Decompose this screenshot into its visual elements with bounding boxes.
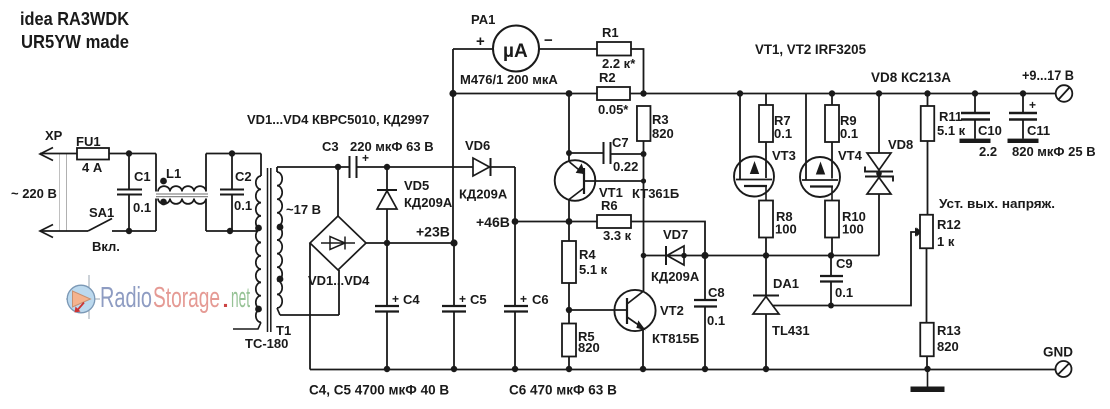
svg-text:R13: R13: [937, 323, 961, 338]
capacitor C11: [1009, 94, 1037, 139]
label SA1: [89, 205, 114, 220]
junction (C6 bottom): [512, 366, 518, 372]
svg-text:С9: С9: [836, 256, 853, 271]
svg-text:100: 100: [775, 222, 797, 237]
svg-text:0.1: 0.1: [774, 126, 792, 141]
label VD8: [888, 137, 913, 152]
label C7: [612, 135, 629, 150]
junction (+23V right end): [450, 239, 457, 246]
resistor R3: [637, 106, 651, 141]
svg-text:C1: C1: [134, 169, 151, 184]
svg-text:ХР: ХР: [45, 128, 63, 143]
wire (R4-R5): [568, 310, 570, 324]
ammeter PA1: [493, 26, 539, 72]
wire (VT2 emitter to ground): [642, 328, 644, 369]
ground symbol: [911, 369, 945, 392]
junction (meter tap on bus): [449, 90, 456, 97]
label VD8 KC213A: [871, 70, 951, 85]
caption C6 value: [509, 383, 617, 398]
wire (R3 to VD7 node vertical): [643, 141, 645, 292]
svg-text:ТС-180: ТС-180: [245, 336, 288, 351]
wire (DA1 cathode): [765, 256, 767, 296]
C11 polarity +: [1029, 98, 1036, 112]
label R13: [937, 323, 961, 338]
label VD5: [404, 178, 429, 193]
C6 polarity +: [520, 292, 527, 306]
svg-text:~17 В: ~17 В: [286, 202, 321, 217]
connector XP arrow (top wire): [40, 148, 53, 161]
capacitor C1: [117, 154, 142, 232]
svg-text:2.2: 2.2: [979, 144, 997, 159]
svg-text:net: net: [231, 282, 250, 314]
label output voltage: [1022, 68, 1074, 83]
svg-text:−: −: [544, 32, 553, 49]
junction (R8 / DA1): [763, 252, 769, 258]
label C1: [134, 169, 151, 184]
svg-text:Storage: Storage: [153, 282, 220, 314]
C5 polarity +: [459, 292, 466, 306]
svg-text:Вкл.: Вкл.: [92, 239, 120, 254]
label R5: [578, 329, 595, 344]
wire (secondary top to C3): [277, 166, 350, 168]
label VD7 type: [651, 269, 700, 284]
switch SA1 blade: [88, 219, 112, 232]
transistor VT1 (KT361B, PNP): [555, 160, 596, 221]
junction (R5 bottom): [566, 366, 572, 372]
svg-text:820: 820: [578, 340, 600, 355]
svg-text:~ 220 В: ~ 220 В: [11, 186, 57, 201]
label R3: [652, 112, 669, 127]
wire (collector to R4): [568, 222, 570, 242]
svg-text:4 А: 4 А: [82, 160, 103, 175]
junction (VD7 anode): [681, 253, 687, 259]
meter polarity +: [476, 33, 485, 50]
svg-text:С10: С10: [978, 123, 1002, 138]
svg-text:0.1: 0.1: [133, 200, 151, 215]
svg-text:0.1: 0.1: [234, 198, 252, 213]
wire (+46V vertical): [514, 167, 516, 306]
wire (VT2 base): [569, 309, 627, 311]
svg-text:TL431: TL431: [772, 323, 810, 338]
svg-text:VT1, VT2 IRF3205: VT1, VT2 IRF3205: [755, 42, 866, 57]
label C6: [532, 292, 549, 307]
resistor R5: [562, 324, 576, 357]
label C9: [836, 256, 853, 271]
svg-text:3.3 к: 3.3 к: [603, 228, 632, 243]
label VT4: [838, 148, 863, 163]
caption C4 C5 values: [309, 383, 449, 398]
svg-text:С4: С4: [403, 292, 420, 307]
junction (R6 drop / C8): [701, 252, 708, 259]
capacitor C6: [504, 306, 528, 369]
svg-text:+: +: [392, 292, 399, 306]
svg-text:C7: C7: [612, 135, 629, 150]
label R1: [602, 25, 619, 40]
label R13 value: [937, 339, 959, 354]
svg-text:КД209А: КД209А: [404, 195, 453, 210]
resistor R13: [920, 323, 934, 357]
label C4: [403, 292, 420, 307]
wire (R1 to bus): [631, 49, 644, 94]
svg-text:С8: С8: [708, 285, 725, 300]
inductor L1 (common-mode choke): [156, 154, 208, 232]
junction (DA1 anode bottom): [763, 366, 769, 372]
svg-text:С11: С11: [1027, 123, 1050, 138]
meter polarity −: [544, 32, 553, 49]
junction (C8 bottom): [702, 366, 708, 372]
svg-text:5.1 к: 5.1 к: [937, 123, 966, 138]
label R8: [776, 209, 793, 224]
svg-text:SA1: SA1: [89, 205, 114, 220]
label R4 value: [579, 262, 608, 277]
label adjust output voltage: [939, 196, 1055, 211]
title text "UR5YW made": [21, 32, 129, 52]
junction (C5 bottom): [451, 366, 457, 372]
wire (R8 to gate line): [765, 238, 767, 256]
T1 primary tap dot (mains): [255, 225, 262, 232]
svg-text:R11: R11: [939, 109, 962, 124]
wire (R9 top): [831, 94, 833, 106]
svg-text:+23В: +23В: [416, 224, 450, 240]
svg-text:VD7: VD7: [663, 227, 688, 242]
svg-text:VD1...VD4 КВРС5010, КД2997: VD1...VD4 КВРС5010, КД2997: [247, 112, 429, 127]
wire (gate drive line): [644, 255, 880, 257]
svg-text:R1: R1: [602, 25, 619, 40]
label FU1: [76, 134, 101, 149]
label VT3: [772, 148, 796, 163]
label C10 value: [979, 144, 997, 159]
resistor R2 (shunt): [597, 87, 630, 100]
junction (VT1 collector node): [566, 218, 573, 225]
svg-text:КТ361Б: КТ361Б: [632, 186, 679, 201]
caption VD1-VD4 types: [247, 112, 429, 127]
svg-text:5.1 к: 5.1 к: [579, 262, 608, 277]
svg-text:VT2: VT2: [660, 303, 684, 318]
wire (DA1 ref line): [772, 232, 917, 306]
label R9: [840, 113, 857, 128]
svg-text:idea RA3WDK: idea RA3WDK: [20, 9, 129, 29]
svg-text:С5: С5: [470, 292, 487, 307]
wire (ground bus): [310, 369, 1056, 371]
svg-text:R2: R2: [599, 70, 616, 85]
transformer T1 core: [268, 168, 271, 332]
junction (VT1 emitter node): [566, 150, 572, 156]
svg-text:КД209А: КД209А: [459, 187, 508, 202]
L1 phasing dot (upper): [160, 178, 167, 185]
label VT1: [599, 185, 623, 200]
junction (+46V): [512, 218, 519, 225]
junction (VD8 top): [876, 90, 882, 96]
junction (VT2 emitter bottom): [640, 366, 646, 372]
diode VD7: [666, 246, 684, 265]
label DA1: [773, 276, 799, 291]
wire (FU1 to C1/L1): [109, 153, 156, 155]
wire (R5 to ground bus): [568, 357, 570, 370]
label C7 value: [613, 159, 638, 174]
label R7: [774, 113, 791, 128]
label GND: [1043, 345, 1073, 360]
label R1 value: [602, 56, 636, 71]
svg-text:VD8: VD8: [888, 137, 913, 152]
wire (SA1 to C1 bottom): [112, 230, 156, 232]
label C11 value: [1012, 144, 1096, 159]
wire (meter − to R1): [539, 48, 597, 50]
junction (VT1 emitter tap): [566, 90, 573, 97]
wire (L1 to C2 top): [206, 153, 261, 155]
resistor R8: [759, 201, 773, 238]
connector XP boundary lines: [60, 154, 67, 231]
label R11: [939, 109, 962, 124]
wire (+23V up to meter): [452, 49, 454, 243]
wire (bridge minus down): [309, 243, 311, 370]
resistor R4: [562, 241, 576, 283]
svg-text:+: +: [1029, 98, 1036, 112]
C4 polarity +: [392, 292, 399, 306]
label R12: [937, 217, 961, 232]
capacitor C7: [569, 142, 644, 164]
label VT2: [660, 303, 684, 318]
label R7 value: [774, 126, 792, 141]
svg-text:0.22: 0.22: [613, 159, 638, 174]
junction (C1 bottom): [126, 228, 132, 234]
label DA1 type: [772, 323, 810, 338]
label TC-180: [245, 336, 288, 351]
capacitor C5: [442, 243, 466, 369]
label C8 value: [707, 313, 725, 328]
voltage reference DA1 (TL431): [753, 296, 779, 370]
watermark RadioStorage.net: [66, 275, 250, 319]
label PA1: [471, 12, 495, 27]
svg-text:DA1: DA1: [773, 276, 799, 291]
svg-text:КТ815Б: КТ815Б: [652, 331, 699, 346]
svg-text:+9...17 В: +9...17 В: [1022, 68, 1074, 83]
junction (C1 top): [126, 150, 132, 156]
svg-text:.: .: [221, 282, 230, 314]
wire (R7 to VT3): [765, 142, 767, 160]
wire (AC top into bridge): [337, 167, 339, 216]
label VT1 type: [632, 186, 679, 201]
junction (VT3 gate line): [737, 90, 743, 96]
bridge inner diode: [321, 237, 355, 250]
wire (R7 top): [765, 94, 767, 106]
label VD6 type: [459, 187, 508, 202]
connector XP label: [45, 128, 63, 143]
label C3: [322, 139, 339, 154]
svg-text:VD8 КС213А: VD8 КС213А: [871, 70, 951, 85]
transformer T1 primary winding: [233, 154, 261, 330]
resistor R9: [825, 105, 839, 142]
transformer T1 secondary winding: [277, 167, 282, 315]
junction (C7/R3): [641, 151, 647, 157]
svg-text:+: +: [520, 292, 527, 306]
label C11: [1027, 123, 1050, 138]
label R2 value: [598, 102, 629, 117]
svg-text:0.05*: 0.05*: [598, 102, 629, 117]
label R8 value: [775, 222, 797, 237]
junction (R9 top): [829, 90, 835, 96]
label R6 value: [603, 228, 632, 243]
svg-text:С3: С3: [322, 139, 339, 154]
svg-text:0.1: 0.1: [835, 285, 853, 300]
junction (C9/ref): [828, 303, 834, 309]
capacitor C10: [961, 94, 990, 139]
junction (C2 bottom): [227, 228, 233, 234]
T1 primary tap dot (lower): [255, 306, 262, 313]
label C2 value 0.1: [234, 198, 252, 213]
transistor VT2 (KT815B, NPN): [614, 290, 655, 331]
junction (+23V VD5): [384, 240, 390, 246]
wire (ref arrowhead): [917, 229, 921, 236]
label C10: [978, 123, 1002, 138]
junction (bridge AC top): [335, 164, 341, 170]
junction (node A, C3/VD5): [384, 164, 390, 170]
resistor R11: [921, 106, 935, 141]
junction (C11 top): [1020, 90, 1026, 96]
T1 secondary tap dot (upper): [277, 224, 284, 231]
junction (R11 top): [924, 90, 930, 96]
svg-text:+: +: [476, 33, 485, 50]
transistor VT3 (IRF3205): [734, 94, 774, 202]
junction (C4 bottom): [384, 366, 390, 372]
label R12 value: [937, 234, 955, 249]
svg-text:VD6: VD6: [465, 138, 490, 153]
terminal (output +9...17V): [1056, 85, 1073, 102]
svg-text:М476/1 200 мкА: М476/1 200 мкА: [460, 72, 558, 87]
label R4: [579, 247, 596, 262]
label R10: [842, 209, 866, 224]
capacitor C8: [694, 256, 717, 370]
svg-text:С4, С5 4700 мкФ 40 В: С4, С5 4700 мкФ 40 В: [309, 383, 449, 398]
capacitor C3: [350, 156, 388, 178]
label VD6: [465, 138, 490, 153]
svg-text:VT3: VT3: [772, 148, 796, 163]
resistor R10: [825, 201, 839, 238]
potentiometer R12: [920, 215, 933, 249]
wire (R4 to base node): [568, 283, 570, 310]
diode VD6: [473, 158, 515, 176]
label R9 value: [840, 126, 858, 141]
ground bar (C11): [1008, 139, 1039, 143]
label C5: [470, 292, 487, 307]
wire (VT1 emitter up): [568, 94, 570, 162]
svg-text:100: 100: [842, 222, 864, 237]
capacitor C2: [220, 154, 244, 232]
wire (+46V to VT1 collector node): [515, 221, 569, 223]
wire (meter + lead): [453, 48, 493, 50]
junction (C10 top): [972, 90, 978, 96]
wire (main bus y=93.5): [630, 93, 1056, 95]
svg-text:R3: R3: [652, 112, 669, 127]
junction (VD7 left T): [641, 253, 647, 259]
svg-text:VD5: VD5: [404, 178, 429, 193]
C3 polarity +: [362, 151, 369, 165]
R12 wiper arrow: [916, 229, 921, 236]
svg-text:0.1: 0.1: [707, 313, 725, 328]
label +23V: [416, 224, 450, 240]
svg-text:+: +: [459, 292, 466, 306]
label meter type: [460, 72, 558, 87]
VD8 centre dot: [876, 171, 882, 177]
label VD1...VD4: [308, 273, 370, 288]
wire (top mains, XP to FU1): [40, 153, 77, 155]
label 4 A: [82, 160, 103, 175]
label VD7: [663, 227, 688, 242]
svg-text:1 к: 1 к: [937, 234, 955, 249]
svg-text:Уст. вых. напряж.: Уст. вых. напряж.: [939, 196, 1055, 211]
junction (R1/R2/R3): [640, 90, 646, 96]
svg-text:µА: µА: [503, 41, 528, 62]
label Vkl.: [92, 239, 120, 254]
svg-text:R12: R12: [937, 217, 961, 232]
junction (R4/R5/VT2 base): [566, 307, 572, 313]
resistor R6: [597, 215, 631, 228]
wire (R13 to ground bus): [926, 357, 928, 370]
capacitor C9: [820, 256, 843, 306]
label R5 value: [578, 340, 600, 355]
svg-text:PA1: PA1: [471, 12, 495, 27]
svg-text:0.1: 0.1: [840, 126, 858, 141]
label C2: [235, 169, 252, 184]
title text "idea RA3WDK": [20, 9, 129, 29]
wire (bus left of R2): [453, 93, 597, 95]
resistor R7: [759, 105, 773, 142]
label ~220 V: [11, 186, 57, 201]
svg-text:С6: С6: [532, 292, 549, 307]
label C1 value 0.1: [133, 200, 151, 215]
wire (secondary bottom to bridge AC): [280, 270, 339, 315]
label C3 value: [350, 139, 434, 154]
label L1: [166, 166, 181, 181]
transistor VT4 (IRF3205): [800, 94, 840, 202]
svg-text:R4: R4: [579, 247, 596, 262]
label R11 value: [937, 123, 966, 138]
svg-text:R6: R6: [601, 198, 618, 213]
svg-text:С6 470 мкФ 63 В: С6 470 мкФ 63 В: [509, 383, 617, 398]
svg-text:GND: GND: [1043, 345, 1073, 360]
label R6: [601, 198, 618, 213]
wire (bottom mains to SA1): [40, 230, 88, 232]
svg-text:VT4: VT4: [838, 148, 863, 163]
junction (R10 / C9): [828, 252, 834, 258]
svg-text:+46В: +46В: [476, 214, 510, 230]
resistor R1: [597, 42, 631, 56]
svg-text:820: 820: [652, 126, 674, 141]
svg-text:L1: L1: [166, 166, 181, 181]
label R2: [599, 70, 616, 85]
label ~17 V: [286, 202, 321, 217]
T1 secondary tap dot (lower): [277, 276, 284, 283]
wire (R6 right down to gate line): [631, 222, 705, 256]
label VT2 type: [652, 331, 699, 346]
svg-text:2.2 к*: 2.2 к*: [602, 56, 636, 71]
ground bar (C10): [960, 139, 991, 143]
zener VD8 (KC213A, bidirectional): [865, 94, 893, 256]
label T1: [276, 323, 291, 338]
svg-text:Radio: Radio: [100, 282, 152, 314]
label R10 value: [842, 222, 864, 237]
capacitor C4: [375, 243, 399, 369]
svg-text:C2: C2: [235, 169, 252, 184]
fuse FU1: [77, 148, 109, 160]
connector XP arrow (bottom wire): [40, 225, 53, 238]
wire (VT1 base to node): [584, 180, 644, 182]
wire (L1 to C2 bottom): [206, 230, 258, 232]
diode VD5: [377, 167, 397, 243]
label VT1,VT2 IRF3205: [755, 42, 866, 57]
label +46V: [476, 214, 510, 230]
label C9 value: [835, 285, 853, 300]
svg-text:820 мкФ 25 В: 820 мкФ 25 В: [1012, 144, 1096, 159]
